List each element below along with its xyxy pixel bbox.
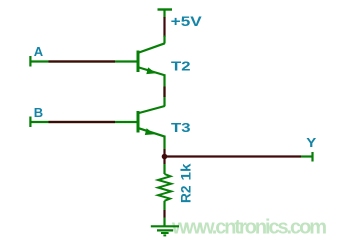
- node Y tick: [306, 135, 316, 162]
- watermark: [171, 217, 327, 239]
- svg-text:B: B: [34, 105, 43, 120]
- svg-text:T2: T2: [171, 59, 191, 74]
- svg-text:+5V: +5V: [171, 13, 203, 29]
- svg-text:www.cntronics.com: www.cntronics.com: [171, 217, 327, 239]
- pin power: [163, 17, 165, 37]
- wire T2 emitter to T3 collector: [163, 76, 165, 107]
- pin T3 emitter: [163, 149, 165, 155]
- wire junction to resistor: [163, 158, 165, 174]
- pin T2 emitter: [163, 87, 165, 98]
- node B tick: [30, 105, 43, 127]
- pin T3 base: [49, 121, 116, 123]
- svg-text:Y: Y: [306, 135, 316, 150]
- svg-text:A: A: [34, 44, 44, 59]
- wire power to T2 collector: [163, 36, 165, 44]
- wire A to T2 base: [30, 60, 137, 62]
- wire resistor to ground: [163, 201, 165, 210]
- wire junction to Y: [165, 155, 313, 157]
- resistor R2: [158, 163, 194, 203]
- svg-text:T3: T3: [171, 120, 191, 135]
- wire T3 emitter to junction: [163, 137, 165, 149]
- svg-text:R2: R2: [178, 185, 194, 203]
- node A tick: [30, 44, 43, 67]
- transistor T2: [138, 43, 191, 75]
- transistor T3: [138, 106, 191, 137]
- junction node: [162, 154, 168, 160]
- wire pin to ground: [163, 218, 165, 227]
- pin T2 base: [49, 60, 116, 62]
- pin resistor bottom: [163, 210, 165, 218]
- svg-text:1k: 1k: [178, 163, 194, 180]
- power +5V: [158, 10, 203, 30]
- ground: [151, 226, 179, 235]
- wire B to T3 base: [30, 121, 137, 123]
